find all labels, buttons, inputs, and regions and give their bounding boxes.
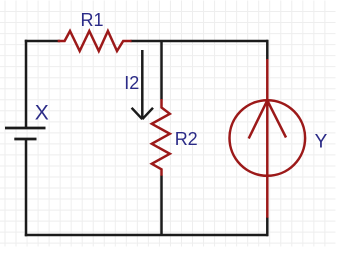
battery X bottom plate <box>14 138 36 141</box>
current source Y vertical lead/shaft <box>266 59 269 218</box>
wire left vertical upper <box>25 40 28 128</box>
svg-text:Y: Y <box>315 131 328 152</box>
svg-text:R1: R1 <box>80 10 103 30</box>
svg-text:R2: R2 <box>175 129 198 149</box>
current arrow I2 <box>132 50 153 119</box>
resistor R2 <box>152 99 170 176</box>
wire left vertical lower <box>25 139 28 236</box>
svg-text:X: X <box>35 101 49 124</box>
wire top-left horizontal <box>25 40 60 43</box>
wire bottom horizontal <box>25 234 268 237</box>
wire top-right horizontal <box>131 40 269 43</box>
wire right vertical lower <box>266 217 269 236</box>
svg-text:I2: I2 <box>124 73 139 93</box>
resistor R1 <box>58 31 132 51</box>
current source Y arrow wings <box>249 100 286 138</box>
wire middle vertical upper <box>160 41 163 100</box>
battery X top plate <box>5 127 46 130</box>
current source Y circle <box>229 100 305 176</box>
wire right vertical upper <box>266 40 269 60</box>
wire middle vertical lower <box>160 176 163 236</box>
